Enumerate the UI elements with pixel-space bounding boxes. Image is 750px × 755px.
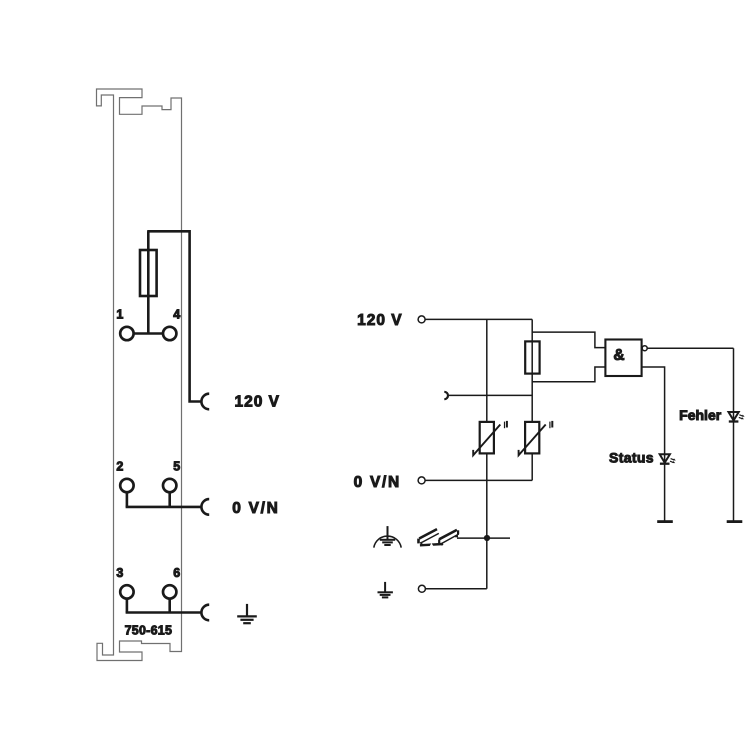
gate output inverter bubble [642,346,647,351]
LED Status [660,454,676,463]
svg-text:1: 1 [116,308,123,322]
svg-text:&: & [613,347,624,364]
node 120 V [418,316,425,323]
svg-text:6: 6 [173,566,180,580]
wire Fehler LED vertical [733,348,735,521]
module 750-615 outline [97,89,182,661]
clamp contact earth [201,605,209,621]
terminal 4 [163,327,176,340]
wire 0V/N to varistor RV2 [425,479,532,481]
svg-text:Status: Status [609,449,654,465]
wire bus terminals 1-4 [127,332,170,335]
earth symbol (bottom) [378,582,393,598]
varistor RV2 [519,421,553,455]
wire stubs terminals 2,5 to bus [127,486,170,507]
svg-text:Fehler: Fehler [679,407,722,423]
Status rail bar [657,520,673,523]
clamp contact 0 V/N [201,499,209,515]
svg-text:0 V/N: 0 V/N [232,500,279,517]
svg-text:4: 4 [173,308,180,322]
terminal 5 [163,479,176,492]
svg-text:3: 3 [116,566,123,580]
wire stubs terminals 3,6 to bus [127,592,170,613]
wire fuse top to 120V tap [147,231,201,401]
wire gate output to Fehler LED [647,347,733,349]
LED Fehler [729,412,745,422]
wire rail to junction [457,537,510,539]
svg-text:120 V: 120 V [357,312,403,329]
wire gate input 1 (before fuse) [532,332,605,348]
wire bus terminals 3-6 [126,611,202,614]
fuse F1 (schematic) [525,341,539,373]
varistor RV1 [473,421,507,455]
node earth [418,585,425,592]
wire varistor branch vertical (bottom) [486,453,488,588]
Fehler rail bar [727,520,743,523]
wire fuse branch vertical [531,319,533,422]
svg-text:750-615: 750-615 [125,623,173,637]
junction dot [484,535,490,541]
wire through fuse down to terminal bus 1-4 [147,231,150,333]
wire varistor branch vertical (top) [486,319,488,422]
node 0 V/N [418,477,425,484]
internal contact hook [444,392,448,399]
svg-text:0 V/N: 0 V/N [354,474,401,491]
wire varistor RV2 to 0V/N [531,453,533,480]
earth symbol (module) [237,604,257,623]
DIN rail symbol [419,529,459,546]
wire 120V to fuse branch [425,318,532,320]
svg-text:5: 5 [173,460,180,474]
wire hook to fuse bottom [448,394,532,396]
svg-text:2: 2 [116,460,123,474]
terminal 6 [163,585,176,598]
AND gate U1 [605,340,641,377]
terminal 3 [120,585,133,598]
fuse F1 (module) [140,250,157,296]
terminal 2 [120,479,133,492]
terminal 1 [120,327,133,340]
wire earth node to varistor branch [425,588,486,590]
noiseless earth symbol [374,526,401,548]
clamp contact 120 V [201,394,209,410]
wire gate input 2 (after fuse) [532,367,605,382]
wire gate to Status LED [642,367,665,522]
svg-text:120 V: 120 V [235,393,281,410]
wire bus terminals 2-5 [126,506,202,509]
